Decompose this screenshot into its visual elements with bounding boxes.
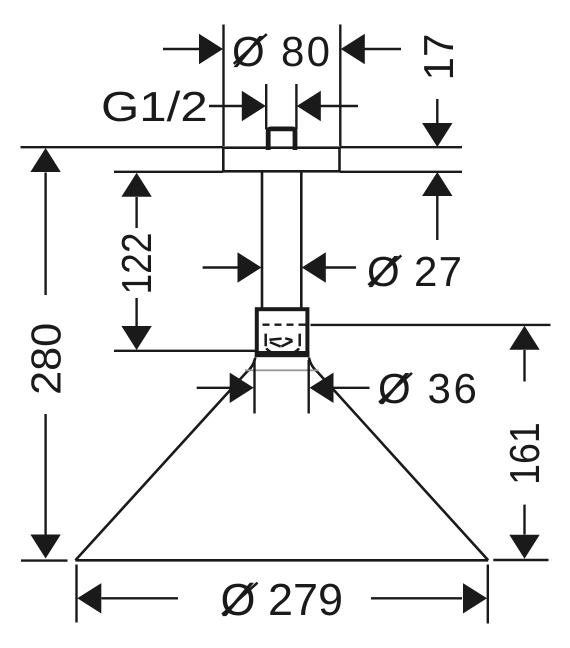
connector box <box>257 309 308 355</box>
ceiling line right <box>340 146 462 148</box>
arrow Ø36 left <box>230 373 254 403</box>
diameter slash overdraw Ø27 <box>368 255 401 285</box>
cone inner gray line <box>245 369 319 371</box>
dim Ø80 left extension line <box>222 25 224 147</box>
arrow 280 bottom <box>30 535 60 559</box>
cone bottom line <box>75 559 488 562</box>
dim G1/2 extension right <box>295 84 297 130</box>
cone right edge <box>309 358 488 561</box>
arrow 280 top <box>30 148 60 172</box>
svg-text:280: 280 <box>23 323 70 395</box>
cone left edge <box>75 358 255 561</box>
svg-text:122: 122 <box>113 233 160 295</box>
svg-text:161: 161 <box>501 422 548 485</box>
dim Ø80 right extension line <box>339 25 341 147</box>
arrow Ø80 right <box>341 34 365 64</box>
dim Ø36 right tail <box>334 387 370 389</box>
hidden lens upper-right dash <box>285 338 292 340</box>
connector bottom band <box>255 351 310 357</box>
arrow Ø27 left <box>238 252 262 282</box>
arrow 122 top <box>121 173 151 197</box>
hidden leg left vertical <box>264 334 267 347</box>
pipe right edge <box>300 172 303 308</box>
hidden lens lower-left dash <box>270 342 281 347</box>
dim 161 bottom stem <box>523 505 525 535</box>
dim 161 bottom extension line <box>493 559 548 561</box>
dim Ø279 left extension line <box>75 565 77 623</box>
dim Ø279 left tail <box>102 597 179 599</box>
hidden leg right vertical <box>298 334 301 347</box>
dim G1/2 tail right <box>320 105 358 107</box>
pipe left edge <box>261 172 264 308</box>
dim Ø36 left extension line <box>253 360 255 414</box>
dim 280 bottom stem <box>44 414 46 535</box>
svg-text:G1/2: G1/2 <box>101 83 208 130</box>
dim Ø36 right extension line <box>308 360 310 414</box>
dim 161 top extension line <box>311 324 551 326</box>
svg-text:17: 17 <box>415 34 462 81</box>
arrow 122 bottom <box>121 326 151 350</box>
dim Ø279 right tail <box>371 597 462 599</box>
dim 122 bottom extension line <box>114 350 256 352</box>
flange plate <box>223 148 339 172</box>
dim 122 bottom stem <box>135 298 137 326</box>
arrow Ø80 left <box>199 34 223 64</box>
flange bottom extension left <box>114 171 223 173</box>
diameter slash overdraw Ø36 <box>379 373 412 403</box>
dim Ø27 left tail <box>203 266 239 268</box>
hidden lens lower-right dash <box>281 341 292 347</box>
arrow Ø279 right <box>463 583 487 613</box>
hidden leg left curve dash <box>266 348 271 352</box>
diameter slash overdraw Ø279 <box>222 583 257 615</box>
arrow Ø279 left <box>77 583 101 613</box>
thread stub G1/2 <box>268 129 295 150</box>
arrow 161 bottom <box>509 535 539 559</box>
dim 161 top stem <box>523 350 525 382</box>
dim 17 bottom stem <box>436 196 438 240</box>
dim Ø279 right extension line <box>487 565 489 624</box>
dim G1/2 tail left <box>209 105 242 107</box>
dim 122 top stem <box>135 197 137 228</box>
arrow G1/2 left <box>242 91 266 121</box>
arrow Ø36 right <box>310 373 334 403</box>
dim G1/2 extension left <box>265 84 267 130</box>
dim Ø36 left tail <box>197 387 230 389</box>
arrow Ø27 right <box>302 252 326 282</box>
dim Ø27 right tail <box>325 266 356 268</box>
hidden line dashed horizontal <box>263 324 308 326</box>
flange bottom extension right <box>340 171 462 173</box>
ceiling line left <box>21 146 224 148</box>
arrow 161 top <box>509 326 539 350</box>
dim 280 top stem <box>44 173 46 296</box>
dim Ø80 left tail <box>163 48 200 50</box>
dim 17 top stem <box>436 99 438 124</box>
arrow 17 down <box>422 123 452 147</box>
diameter slash overdraw Ø80 <box>234 34 267 64</box>
dim 280 bottom extension line <box>21 559 68 561</box>
arrow G1/2 right <box>297 91 321 121</box>
hidden leg right curve dash <box>295 348 300 352</box>
svg-text:Ø 27: Ø 27 <box>367 248 463 295</box>
hidden lens upper-left dash <box>269 339 281 340</box>
dim Ø80 right tail <box>364 48 401 50</box>
arrow 17 up <box>422 172 452 196</box>
